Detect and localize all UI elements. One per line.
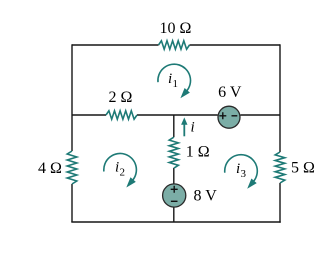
mesh current i1 arrow (top loop): [158, 64, 191, 98]
svg-text:5 Ω: 5 Ω: [291, 160, 315, 177]
wire left edge (top corner to bottom corner): [71, 44, 73, 151]
resistor 1 ohm (middle branch): [169, 137, 178, 168]
wire top: left corner to 10-ohm resistor: [72, 44, 159, 46]
wire middle horizontal: 2-ohm resistor to center node: [137, 114, 218, 116]
svg-text:2: 2: [120, 166, 126, 178]
resistor 10 ohm (top): [159, 41, 190, 49]
label 10 ohm: [160, 20, 192, 37]
wire top: 10-ohm resistor to right corner: [190, 44, 281, 46]
svg-text:4 Ω: 4 Ω: [38, 160, 62, 177]
resistor 4 ohm (left edge): [67, 151, 77, 184]
svg-text:i: i: [191, 120, 195, 136]
svg-text:3: 3: [241, 168, 247, 180]
label i2: [115, 159, 125, 178]
svg-text:8 V: 8 V: [194, 188, 218, 205]
label i: [191, 120, 195, 136]
label 4 ohm: [38, 160, 62, 177]
label i1: [168, 71, 178, 90]
wire left edge below 4-ohm resistor: [71, 184, 73, 222]
label i3: [236, 161, 247, 180]
svg-text:2 Ω: 2 Ω: [109, 89, 133, 106]
label 6 V: [218, 84, 242, 101]
wire right edge above 5-ohm resistor: [279, 44, 281, 152]
label 2 ohm: [109, 89, 133, 106]
branch current arrow i (up, beside middle branch): [181, 117, 187, 136]
svg-text:1: 1: [173, 78, 179, 90]
svg-text:6 V: 6 V: [218, 84, 242, 101]
label 1 ohm: [186, 144, 210, 161]
wire middle vertical: 8V source to bottom edge: [173, 207, 175, 222]
svg-text:1 Ω: 1 Ω: [186, 144, 210, 161]
voltage source 8V (circle on middle branch): [163, 184, 186, 207]
resistor 2 ohm (middle wire): [106, 111, 137, 119]
mesh current i2 arrow (bottom-left loop): [104, 153, 137, 187]
wire middle horizontal: 6V source to right edge: [241, 114, 281, 116]
label 8 V: [194, 188, 218, 205]
wire middle vertical: center node down to 1-ohm resistor: [173, 115, 175, 137]
svg-text:10 Ω: 10 Ω: [160, 20, 192, 37]
wire middle horizontal: left edge to 2-ohm resistor: [72, 114, 106, 116]
mesh current i3 arrow (bottom-middle loop): [225, 155, 258, 189]
wire right edge below 5-ohm resistor: [279, 183, 281, 223]
wire bottom edge: [71, 221, 280, 223]
label 5 ohm: [291, 160, 315, 177]
resistor 5 ohm (right edge): [275, 152, 285, 183]
voltage source 6V (circle on middle wire): [218, 106, 240, 128]
wire middle vertical: 1-ohm resistor to 8V source: [173, 168, 175, 184]
